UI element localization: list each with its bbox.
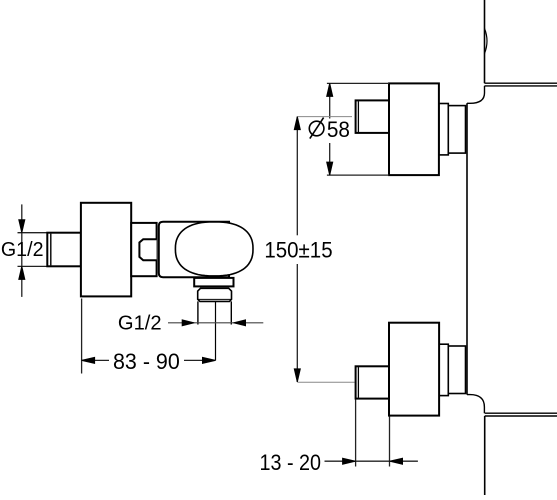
wall section line bottom lower	[485, 415, 557, 417]
arrow left at handle face	[390, 458, 403, 464]
svg-text:G1/2: G1/2	[118, 312, 162, 334]
wall section line bottom upper	[485, 412, 557, 414]
wall edge between knobs	[466, 103, 468, 394]
arrow left at 83-90 left	[82, 357, 95, 363]
wire: 13-20 right extension line	[389, 417, 391, 467]
arrow right at cap face	[343, 458, 356, 464]
wire: diameter 58 dim line lower	[329, 143, 331, 175]
outlet flange	[194, 278, 233, 287]
nub on adapter	[139, 239, 156, 260]
escutcheon adapter	[131, 223, 156, 276]
inlet chamfer line	[50, 234, 52, 266]
wall clip bump	[485, 29, 488, 54]
wire: pipe center line	[215, 302, 217, 360]
wire: diameter 58 top extension	[327, 82, 389, 84]
wire: pipe left edge	[197, 301, 199, 324]
wire: 150 top extension line	[297, 116, 352, 118]
top cap chamfer line	[357, 101, 359, 132]
top knob adapter A	[439, 104, 448, 155]
arrow down 150 bottom	[294, 369, 300, 382]
arrow down at inlet top	[19, 220, 25, 233]
wire: 150 dim line lower	[296, 264, 298, 382]
arrow up 150 top	[294, 117, 300, 130]
arrow right at flange left	[182, 320, 194, 326]
wall section line top upper	[485, 82, 557, 84]
bottom knob handle	[389, 323, 439, 416]
top knob handle	[389, 83, 439, 175]
wire: 150 bottom extension line	[297, 381, 354, 383]
wire: left G1/2 bottom extension line	[18, 265, 48, 267]
wire: diameter 58 dim line upper	[329, 83, 331, 118]
wall cut curve bottom	[467, 395, 484, 414]
wire: diameter 58 bottom extension	[327, 174, 389, 176]
inlet connector	[47, 233, 81, 267]
wire: G1/2 outlet dim line	[168, 322, 263, 324]
top knob adapter B	[448, 106, 465, 154]
main body	[81, 203, 131, 297]
knob ellipse	[175, 222, 253, 276]
wire: 13-20 left extension line	[355, 400, 357, 467]
wire: 83-90 dim line right	[184, 359, 216, 361]
wire: 83-90 dim line left	[82, 359, 109, 361]
cartridge housing	[159, 222, 229, 277]
bottom knob adapter A	[439, 344, 448, 395]
svg-text:58: 58	[327, 117, 350, 142]
wire: pipe right edge	[230, 301, 232, 324]
wire: 150 dim line upper	[296, 117, 298, 236]
wall surface line top	[484, 0, 486, 83]
outlet thread	[198, 288, 232, 301]
wall section line top lower	[485, 85, 557, 87]
arrow up diameter top	[327, 83, 333, 96]
bottom cap chamfer line	[357, 367, 359, 398]
top knob cap	[356, 100, 389, 132]
svg-text:13 - 20: 13 - 20	[260, 450, 322, 475]
bottom knob adapter B	[448, 346, 465, 394]
svg-text:150±15: 150±15	[264, 238, 332, 263]
wire: left G1/2 vertical dimension line	[21, 204, 23, 297]
wire: left G1/2 top extension line	[18, 232, 48, 234]
bottom knob cap	[356, 366, 389, 398]
wire: 13-20 dim line	[325, 460, 418, 462]
svg-text:83 - 90: 83 - 90	[113, 349, 180, 374]
label diameter symbol	[309, 121, 324, 136]
arrow right at 83-90 right	[203, 357, 216, 363]
wall cut curve top	[467, 86, 485, 103]
arrow up at inlet bottom	[19, 266, 25, 279]
svg-text:G1/2: G1/2	[1, 239, 44, 261]
arrow down diameter bottom	[327, 162, 333, 175]
wall surface line bottom	[484, 416, 486, 495]
arrow left at flange right	[234, 320, 246, 326]
wire: 83-90 left extension line	[81, 299, 83, 374]
